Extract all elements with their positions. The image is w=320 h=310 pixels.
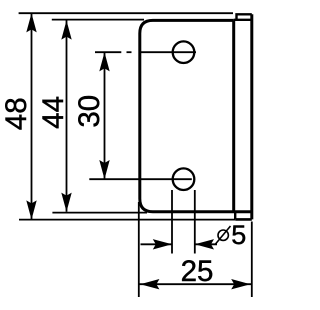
svg-text:44: 44 — [37, 96, 70, 129]
svg-text:30: 30 — [73, 95, 106, 128]
svg-text:48: 48 — [0, 97, 33, 130]
svg-text:5: 5 — [231, 220, 246, 250]
svg-text:25: 25 — [181, 255, 214, 288]
